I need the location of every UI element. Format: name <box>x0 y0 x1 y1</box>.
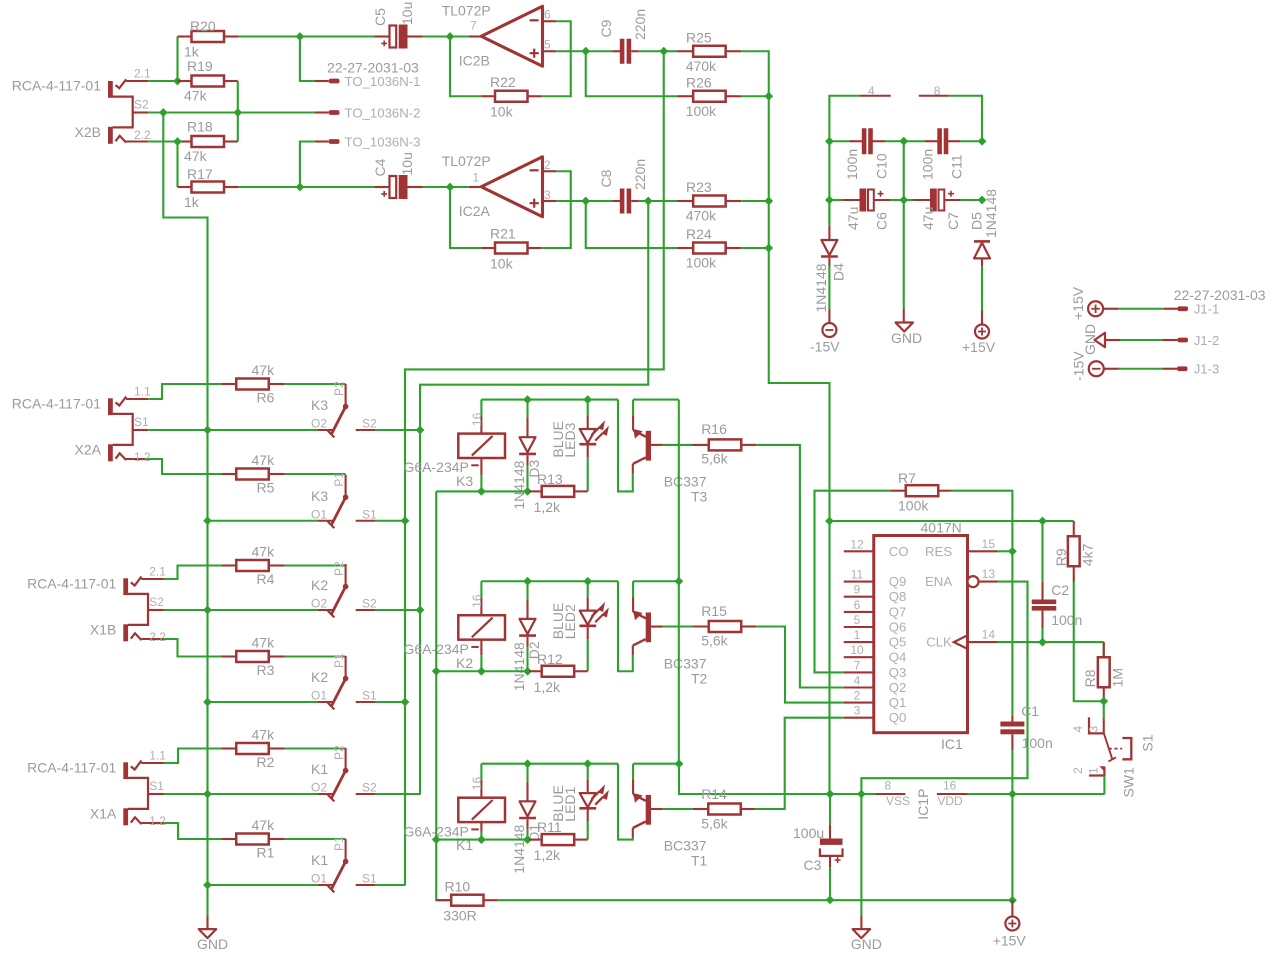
junction <box>978 196 987 205</box>
svg-text:X1A: X1A <box>90 806 117 822</box>
wire X1A tip 1.2 to R1 <box>164 823 222 839</box>
junction <box>523 759 532 768</box>
capacitor C3 100u <box>793 825 843 873</box>
wire pin15 <box>998 550 1013 552</box>
svg-text:470k: 470k <box>686 208 717 224</box>
junction <box>674 577 683 586</box>
wire SW1 to supply rail <box>1103 776 1105 795</box>
wire R14 to Q0 pin 3 <box>755 718 844 809</box>
pin 5 Q6 of IC1 <box>844 613 907 635</box>
svg-text:Q3: Q3 <box>889 665 907 680</box>
svg-text:1.2: 1.2 <box>134 450 151 464</box>
wire R17 node to C4 <box>300 186 375 188</box>
wire ground bus (jack sleeves) <box>163 113 207 916</box>
wire K1 cluster top rail <box>481 763 618 765</box>
svg-text:TO_1036N-2: TO_1036N-2 <box>345 106 421 121</box>
wire sleeve X2A row <box>148 429 318 431</box>
junction <box>203 516 212 525</box>
pin 10 Q4 of IC1 <box>844 643 907 665</box>
svg-text:R24: R24 <box>686 226 712 242</box>
capacitor C10 100n <box>844 128 890 180</box>
svg-text:1: 1 <box>1087 767 1101 774</box>
pin 14 CLK of IC1 <box>926 628 997 650</box>
junction <box>173 77 182 86</box>
wire R19/R18 right vertical <box>237 81 239 142</box>
capacitor C8 220n <box>598 159 648 214</box>
svg-text:47k: 47k <box>252 544 276 560</box>
svg-text:Q7: Q7 <box>889 604 907 619</box>
svg-text:O1: O1 <box>311 872 327 886</box>
svg-text:S2: S2 <box>362 781 377 795</box>
svg-text:10: 10 <box>850 643 864 657</box>
svg-text:5: 5 <box>544 38 551 52</box>
svg-text:IC1: IC1 <box>941 736 963 752</box>
resistor R24 100k <box>678 226 742 271</box>
wire R21 left to input node <box>450 187 481 248</box>
junction <box>899 137 908 146</box>
transistor T2 BC337 <box>633 581 708 686</box>
svg-text:R3: R3 <box>257 662 275 678</box>
svg-text:C3: C3 <box>804 857 822 873</box>
svg-text:R18: R18 <box>187 119 213 135</box>
svg-text:100n: 100n <box>920 149 936 180</box>
svg-text:10u: 10u <box>399 2 415 25</box>
junction <box>203 881 212 890</box>
pin 4 Q2 of IC1 <box>844 674 907 696</box>
svg-text:47k: 47k <box>252 635 276 651</box>
svg-text:R12: R12 <box>537 651 563 667</box>
wire R20 node to C5 <box>300 35 375 37</box>
svg-text:-15V: -15V <box>1071 351 1087 381</box>
wire C8 to R23 <box>639 200 649 202</box>
relay contact K1 O1/S1 <box>311 836 377 892</box>
svg-text:6: 6 <box>854 598 861 612</box>
junction <box>432 835 441 844</box>
wire to TO_1036N-1 <box>300 37 315 82</box>
wire R10 to +15V rail <box>497 899 1012 901</box>
op-amp IC2A TL072P <box>442 153 557 219</box>
pin 7 Q3 of IC1 <box>844 658 907 680</box>
svg-text:RCA-4-117-01: RCA-4-117-01 <box>27 760 116 776</box>
junction <box>477 667 486 676</box>
junction <box>523 395 532 404</box>
connector pad TO_1036N-2 <box>315 106 421 121</box>
resistor R17 1k <box>178 166 239 210</box>
junction <box>899 196 908 205</box>
svg-text:C10: C10 <box>874 153 890 179</box>
svg-text:2: 2 <box>1071 767 1085 774</box>
junction <box>523 577 532 586</box>
svg-text:+15V: +15V <box>993 932 1027 948</box>
svg-text:Q8: Q8 <box>889 589 907 604</box>
svg-text:5,6k: 5,6k <box>701 633 728 649</box>
svg-text:10u: 10u <box>399 152 415 175</box>
svg-text:1M: 1M <box>1110 668 1126 687</box>
svg-text:R9: R9 <box>1053 548 1069 566</box>
supply symbol +15V top <box>962 311 996 355</box>
svg-text:47k: 47k <box>184 148 208 164</box>
junction <box>764 244 773 253</box>
junction <box>1038 638 1047 647</box>
resistor R19 47k <box>178 58 238 104</box>
svg-text:47u: 47u <box>920 207 936 230</box>
wire collector bus to supply rail <box>679 764 875 794</box>
junction <box>825 137 834 146</box>
wire IC2B R26 branch <box>586 51 678 96</box>
junction <box>203 606 212 615</box>
svg-text:16: 16 <box>470 777 484 791</box>
svg-text:R2: R2 <box>257 754 275 770</box>
capacitor C6 47u <box>843 189 891 231</box>
LED LED2 blue <box>550 581 607 671</box>
wire S1 stub row K2 <box>375 701 405 703</box>
junction <box>173 137 182 146</box>
wire C3 top leg <box>829 794 831 825</box>
wire IC2A R24 branch <box>586 201 678 248</box>
resistor R26 100k <box>678 75 742 120</box>
relay contact K1 O2/S2 <box>311 745 377 801</box>
svg-text:10k: 10k <box>490 104 514 120</box>
wire K2 bottom rail <box>436 670 529 672</box>
svg-text:K1: K1 <box>311 761 328 777</box>
relay coil K2 G6A-234P <box>404 581 506 671</box>
svg-text:16: 16 <box>470 412 484 426</box>
svg-text:C5: C5 <box>372 8 388 26</box>
svg-text:X2B: X2B <box>75 124 101 140</box>
svg-text:1N4148: 1N4148 <box>511 460 527 509</box>
wire J1-3 <box>1104 368 1119 370</box>
junction <box>644 197 653 206</box>
IC IC1 4017N body <box>874 520 968 753</box>
pin 11 Q9 of IC1 <box>844 568 907 590</box>
svg-text:R5: R5 <box>257 480 275 496</box>
resistor R15 5,6k <box>693 603 757 649</box>
svg-text:C4: C4 <box>372 158 388 176</box>
svg-text:1N4148: 1N4148 <box>813 263 829 312</box>
svg-text:100k: 100k <box>686 103 717 119</box>
svg-text:S2: S2 <box>362 417 377 431</box>
resistor R10 330R <box>436 878 497 923</box>
connector X1B (RCA-4-117-01 jack pair) <box>27 565 166 645</box>
junction <box>446 183 455 192</box>
svg-text:IC2A: IC2A <box>459 203 491 219</box>
wire R24 to bus <box>741 247 769 249</box>
wire to relay contact P pin <box>285 838 346 840</box>
svg-text:1k: 1k <box>184 194 200 210</box>
junction <box>581 47 590 56</box>
junction <box>978 137 987 146</box>
junction <box>659 47 668 56</box>
svg-text:47k: 47k <box>252 817 276 833</box>
svg-text:5,6k: 5,6k <box>701 816 728 832</box>
svg-text:2: 2 <box>544 158 551 172</box>
power pin 4 of IC2P <box>860 84 891 98</box>
capacitor C1 100n <box>1000 551 1052 794</box>
wire GND leg <box>860 794 862 915</box>
wire summing bus down to counter section <box>769 96 830 794</box>
junction <box>203 698 212 707</box>
svg-text:7: 7 <box>854 658 861 672</box>
svg-text:100n: 100n <box>844 149 860 180</box>
svg-text:Q2: Q2 <box>889 680 907 695</box>
wire O1 row K1 <box>208 884 319 886</box>
diode D2 1N4148 <box>511 581 542 691</box>
supply symbol +15V bottom <box>993 900 1027 948</box>
resistor R20 1k <box>178 18 239 60</box>
svg-text:Q9: Q9 <box>889 574 907 589</box>
diode D3 1N4148 <box>511 400 542 510</box>
resistor R8 1M <box>1082 642 1126 699</box>
wire R22 left to input node <box>450 37 481 97</box>
wire K3 bottom rail <box>436 490 529 492</box>
svg-text:RES: RES <box>925 544 952 559</box>
supply symbol -15V at J1-3 <box>1071 351 1104 381</box>
wire S2 net to TO_1036N-2 <box>148 111 315 113</box>
svg-text:1,2k: 1,2k <box>534 847 561 863</box>
svg-text:1.1: 1.1 <box>149 749 166 763</box>
wire K1 bottom rail <box>436 839 529 841</box>
svg-text:TO_1036N-1: TO_1036N-1 <box>345 74 421 89</box>
svg-text:R23: R23 <box>686 179 712 195</box>
wire K1 rail to R10 <box>436 840 451 901</box>
relay contact K2 O1/S1 <box>311 653 377 709</box>
svg-text:SW1: SW1 <box>1121 767 1137 798</box>
svg-text:47k: 47k <box>184 88 208 104</box>
connector X2A (RCA-4-117-01 jack pair) <box>12 385 151 465</box>
svg-text:R13: R13 <box>537 471 563 487</box>
wire pin3 to C8 <box>556 200 586 202</box>
svg-text:P1: P1 <box>332 653 346 668</box>
wire to relay contact P pin <box>285 747 346 749</box>
svg-text:5,6k: 5,6k <box>701 451 728 467</box>
svg-text:R25: R25 <box>686 30 712 46</box>
wire O1 row K2 <box>208 701 319 703</box>
relay coil K1 G6A-234P <box>404 764 506 854</box>
junction <box>764 197 773 206</box>
wire X1B tip 2.1 to R4 <box>164 566 222 580</box>
svg-text:C11: C11 <box>949 154 965 179</box>
svg-text:BC337: BC337 <box>664 655 707 671</box>
svg-text:CLK: CLK <box>926 635 952 650</box>
svg-text:12: 12 <box>850 537 864 551</box>
junction <box>825 517 834 526</box>
svg-text:GND: GND <box>197 936 228 952</box>
svg-text:LED3: LED3 <box>562 422 578 457</box>
pin 13 ENA of IC1 <box>925 567 998 589</box>
svg-text:Q1: Q1 <box>889 695 907 710</box>
svg-text:22-27-2031-03: 22-27-2031-03 <box>327 60 419 76</box>
svg-text:5: 5 <box>854 613 861 627</box>
wire R26 to bus <box>741 95 769 97</box>
svg-text:C9: C9 <box>598 19 614 37</box>
junction <box>296 183 305 192</box>
junction <box>523 667 532 676</box>
wire pin5 to C9 <box>556 50 586 52</box>
junction <box>233 108 242 117</box>
svg-text:C1: C1 <box>1021 703 1039 719</box>
wire pin2 feedback <box>541 171 571 248</box>
svg-text:R15: R15 <box>701 603 727 619</box>
wire pin13 ENA to ground rail <box>861 582 1027 794</box>
resistor R1x 1,2k of K3 <box>529 471 588 515</box>
pin 9 Q8 of IC1 <box>844 583 907 605</box>
wire C5 to IC2B <box>423 35 451 37</box>
wire R23 to bus <box>741 200 769 202</box>
svg-text:VDD: VDD <box>937 794 963 808</box>
svg-text:BC337: BC337 <box>664 838 707 854</box>
svg-text:7: 7 <box>470 19 477 33</box>
svg-text:6: 6 <box>544 8 551 22</box>
svg-text:O1: O1 <box>311 689 327 703</box>
svg-text:Q5: Q5 <box>889 635 907 650</box>
wire S2 stub row X1B <box>375 609 420 611</box>
resistor R4 47k <box>221 544 284 588</box>
wire V- rail <box>829 96 860 225</box>
resistor R18 47k <box>178 119 238 165</box>
wire R20 left vertical <box>176 37 178 82</box>
svg-text:100n: 100n <box>1022 735 1053 751</box>
svg-text:R26: R26 <box>686 75 712 91</box>
svg-text:K3: K3 <box>456 473 473 489</box>
svg-text:47k: 47k <box>252 452 276 468</box>
junction <box>583 759 592 768</box>
svg-text:S2: S2 <box>149 595 164 609</box>
svg-text:R1: R1 <box>257 845 275 861</box>
svg-text:100n: 100n <box>1051 612 1082 628</box>
power pin 8 VSS of IC1P <box>875 779 910 809</box>
diode D5 1N4148 <box>969 189 1000 266</box>
wire R17 left vertical <box>176 142 178 188</box>
connector pad J1-2 <box>1163 333 1220 348</box>
svg-text:VSS: VSS <box>886 794 910 808</box>
svg-text:S2: S2 <box>134 98 149 112</box>
svg-text:K3: K3 <box>311 488 328 504</box>
wire S1 stub row K1 <box>375 884 406 886</box>
svg-text:P1: P1 <box>332 836 346 851</box>
wire sleeve X1A row <box>164 793 319 795</box>
capacitor C5 10u <box>372 2 423 49</box>
relay contact K3 O2/S2 <box>311 381 377 437</box>
resistor R7 100k <box>890 470 952 514</box>
svg-text:14: 14 <box>982 628 996 642</box>
LED LED1 blue <box>550 764 607 840</box>
wire S1 bus to IC2B input <box>405 51 664 885</box>
resistor R23 470k <box>678 179 742 224</box>
svg-text:S1: S1 <box>362 507 377 521</box>
svg-text:S1: S1 <box>149 779 164 793</box>
svg-text:4: 4 <box>1071 726 1085 733</box>
junction <box>583 395 592 404</box>
ground symbol at J1-2 <box>1082 324 1105 355</box>
wire T1 emitter loop <box>618 764 633 840</box>
svg-text:16: 16 <box>470 594 484 608</box>
wire S2 stub row X1A <box>375 793 421 795</box>
wire T3 collector link <box>633 399 679 401</box>
wire T2 collector link <box>633 580 679 582</box>
resistor R25 470k <box>678 30 742 75</box>
wire to relay contact P pin <box>285 383 346 385</box>
svg-text:R4: R4 <box>257 571 275 587</box>
junction <box>401 698 410 707</box>
junction <box>1008 896 1017 905</box>
junction <box>523 487 532 496</box>
svg-text:2.1: 2.1 <box>149 565 166 579</box>
svg-text:3: 3 <box>1087 726 1101 733</box>
diode D1 1N4148 <box>511 764 542 874</box>
svg-text:D5: D5 <box>969 212 985 230</box>
junction <box>1038 517 1047 526</box>
capacitor C9 220n <box>598 9 648 64</box>
svg-text:220n: 220n <box>632 9 648 40</box>
wire pin14 CLK net <box>998 641 1104 643</box>
junction <box>1008 547 1017 556</box>
svg-text:P2: P2 <box>332 381 346 396</box>
junction <box>446 32 455 41</box>
resistor R1x 1,2k of K1 <box>529 819 588 863</box>
wire R17 out to C4 <box>239 186 300 188</box>
svg-text:22-27-2031-03: 22-27-2031-03 <box>1174 287 1266 303</box>
wire C10 left <box>829 140 849 142</box>
svg-text:T1: T1 <box>691 853 708 869</box>
svg-text:D4: D4 <box>831 263 847 281</box>
svg-text:1: 1 <box>473 171 480 185</box>
transistor T3 BC337 <box>633 400 708 505</box>
svg-text:1: 1 <box>854 628 861 642</box>
junction <box>1008 790 1017 799</box>
svg-text:2: 2 <box>854 689 861 703</box>
svg-text:R21: R21 <box>490 226 516 242</box>
svg-text:X1B: X1B <box>90 622 116 638</box>
svg-text:C2: C2 <box>1051 582 1069 598</box>
svg-text:RCA-4-117-01: RCA-4-117-01 <box>12 78 101 94</box>
svg-text:S2: S2 <box>362 597 377 611</box>
wire S2 bus to IC2A input <box>420 201 648 794</box>
pin 1 Q5 of IC1 <box>844 628 907 650</box>
svg-text:+15V: +15V <box>1070 286 1086 320</box>
wire C7 right <box>961 199 983 201</box>
svg-text:Q6: Q6 <box>889 620 907 635</box>
svg-text:-15V: -15V <box>810 339 840 355</box>
wire R9 bottom to R8 bottom <box>1074 582 1104 701</box>
svg-text:GND: GND <box>891 330 922 346</box>
svg-text:1,2k: 1,2k <box>534 679 561 695</box>
svg-text:T2: T2 <box>691 670 708 686</box>
svg-text:K2: K2 <box>456 655 473 671</box>
svg-text:TO_1036N-3: TO_1036N-3 <box>345 135 421 150</box>
svg-text:RCA-4-117-01: RCA-4-117-01 <box>12 396 101 412</box>
capacitor C4 10u <box>372 152 423 199</box>
svg-text:RCA-4-117-01: RCA-4-117-01 <box>27 576 116 592</box>
junction <box>432 667 441 676</box>
LED LED3 blue <box>550 400 607 492</box>
wire C6 left <box>829 199 842 201</box>
svg-text:BC337: BC337 <box>664 474 707 490</box>
svg-text:R20: R20 <box>190 18 216 34</box>
svg-text:3: 3 <box>854 704 861 718</box>
svg-text:R6: R6 <box>257 390 275 406</box>
svg-text:R16: R16 <box>701 421 727 437</box>
op-amp IC2B TL072P <box>442 3 557 69</box>
svg-text:330R: 330R <box>443 907 476 923</box>
switch SW1 S1 <box>1071 701 1156 797</box>
capacitor C11 100n <box>920 128 965 180</box>
wire mid rail to GND <box>903 141 905 309</box>
resistor R16 5,6k <box>693 421 757 467</box>
power pin 16 VDD of IC1P <box>915 779 968 820</box>
wire C10-C11 <box>885 140 925 142</box>
wire X1B tip 2.2 to R3 <box>164 639 222 657</box>
wire T3 base <box>663 444 693 446</box>
